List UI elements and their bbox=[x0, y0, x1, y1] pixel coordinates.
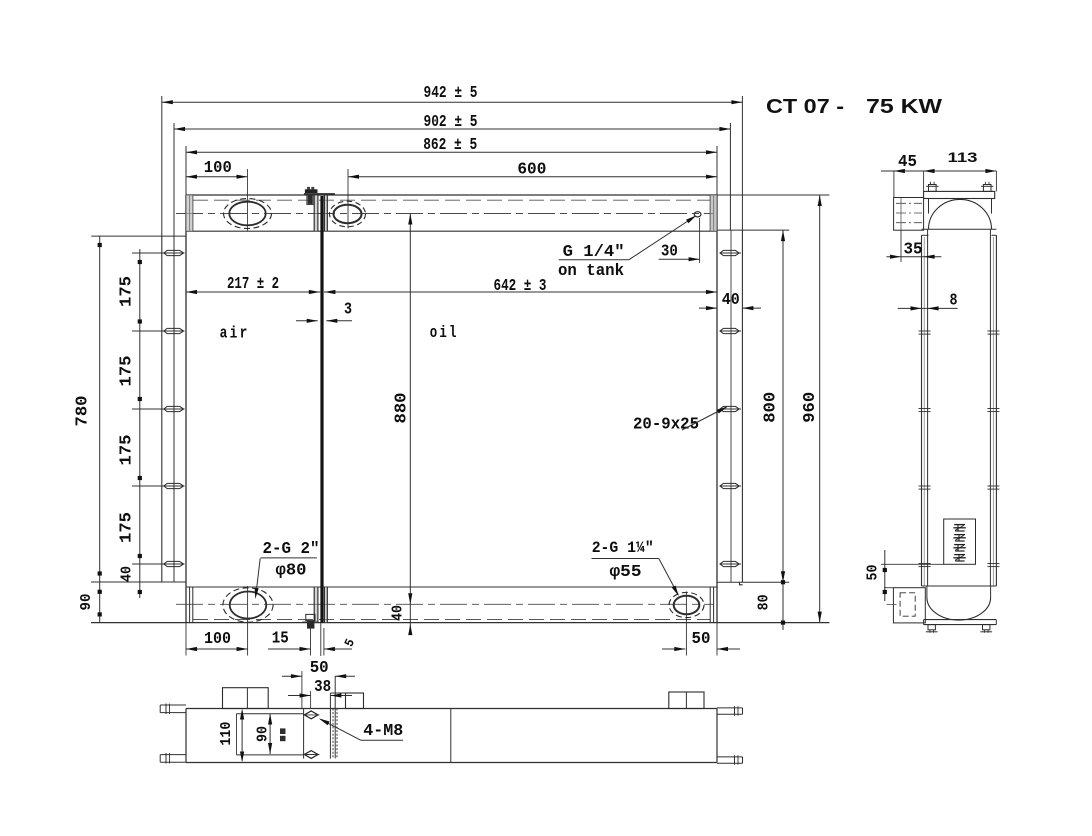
svg-text:75 KW: 75 KW bbox=[866, 96, 942, 118]
svg-text:2-G 2": 2-G 2" bbox=[263, 540, 320, 559]
svg-text:8: 8 bbox=[950, 291, 958, 310]
svg-text:oil: oil bbox=[430, 324, 459, 343]
svg-text:φ55: φ55 bbox=[610, 563, 642, 582]
svg-text:30: 30 bbox=[661, 243, 678, 262]
svg-text:902 ± 5: 902 ± 5 bbox=[424, 113, 478, 132]
svg-text:80: 80 bbox=[756, 594, 773, 610]
svg-text:642 ± 3: 642 ± 3 bbox=[494, 277, 547, 296]
svg-text:50: 50 bbox=[692, 630, 711, 649]
svg-text:CT 07 -: CT 07 - bbox=[766, 96, 844, 118]
svg-text:3: 3 bbox=[344, 300, 352, 319]
svg-text:G 1/4": G 1/4" bbox=[563, 243, 625, 262]
svg-text:on tank: on tank bbox=[558, 262, 624, 281]
svg-text:50: 50 bbox=[310, 659, 329, 678]
svg-text:90: 90 bbox=[255, 726, 272, 742]
svg-text:air: air bbox=[220, 325, 250, 344]
svg-text:15: 15 bbox=[272, 630, 289, 649]
svg-text:38: 38 bbox=[314, 678, 331, 697]
svg-text:2-G 1¼": 2-G 1¼" bbox=[592, 539, 654, 557]
svg-text:45: 45 bbox=[898, 153, 917, 172]
svg-text:100: 100 bbox=[204, 159, 232, 178]
svg-text:780: 780 bbox=[73, 396, 92, 427]
svg-text:φ80: φ80 bbox=[276, 561, 307, 580]
svg-text:40: 40 bbox=[722, 291, 740, 310]
svg-text:50: 50 bbox=[865, 565, 882, 581]
svg-text:90: 90 bbox=[78, 594, 95, 611]
svg-text:217 ± 2: 217 ± 2 bbox=[227, 275, 279, 294]
svg-text:20-9x25: 20-9x25 bbox=[633, 415, 699, 434]
svg-text:40: 40 bbox=[389, 605, 406, 621]
svg-text:880: 880 bbox=[393, 393, 412, 424]
svg-text:960: 960 bbox=[801, 392, 820, 423]
svg-text:110: 110 bbox=[218, 722, 235, 746]
svg-text:35: 35 bbox=[904, 240, 923, 259]
svg-text:113: 113 bbox=[948, 149, 978, 165]
svg-text:40: 40 bbox=[119, 566, 136, 582]
svg-text:175: 175 bbox=[117, 435, 136, 466]
svg-text:600: 600 bbox=[517, 160, 546, 179]
svg-text:862 ± 5: 862 ± 5 bbox=[423, 136, 477, 155]
svg-text:100: 100 bbox=[204, 630, 231, 649]
svg-text:4-M8: 4-M8 bbox=[363, 722, 403, 741]
svg-text:175: 175 bbox=[117, 512, 136, 543]
svg-text:175: 175 bbox=[117, 356, 136, 387]
svg-text:175: 175 bbox=[117, 276, 136, 307]
svg-text:800: 800 bbox=[761, 392, 780, 423]
svg-text:942 ± 5: 942 ± 5 bbox=[424, 84, 478, 103]
